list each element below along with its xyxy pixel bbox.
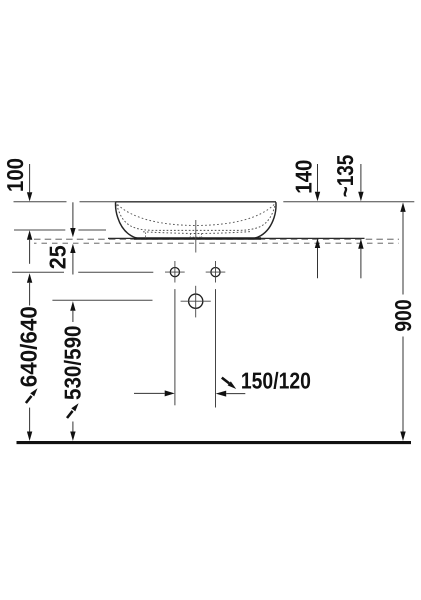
dimension 150/120 right tail xyxy=(226,393,245,395)
drain circle xyxy=(189,294,203,308)
dashed countertop top line xyxy=(34,238,399,240)
dimension 530 upper line xyxy=(72,311,74,322)
svg-text:100: 100 xyxy=(2,158,28,192)
dashed countertop bottom line xyxy=(34,242,399,244)
dimension 150/120 left arrowhead xyxy=(165,390,175,396)
svg-text:900: 900 xyxy=(390,299,416,332)
wire rim-level line mid segment xyxy=(80,201,277,203)
tap hole circle right xyxy=(211,268,220,277)
wire 100-below reference line left xyxy=(14,229,65,231)
dimension 640 upper line xyxy=(29,283,31,306)
dimension 25 lower tail xyxy=(72,253,74,275)
svg-text:640/640: 640/640 xyxy=(16,306,42,387)
svg-text:25: 25 xyxy=(45,245,71,269)
svg-text:530/590: 530/590 xyxy=(60,326,86,401)
dimension 100 upper arrowhead xyxy=(27,192,32,201)
dimension 640 upper arrowhead xyxy=(27,273,32,283)
dimension 25 lower arrowhead xyxy=(70,244,75,253)
drain crosshair vertical xyxy=(195,286,197,318)
basin bottom thick line xyxy=(134,237,261,239)
drain dotted line left xyxy=(145,233,147,239)
drain dotted line mid-right xyxy=(201,234,203,239)
tap hole right crosshair horizontal xyxy=(206,271,226,273)
dimension 530 slant arrow xyxy=(67,403,79,418)
dimension 150/120 slant arrow xyxy=(222,378,236,389)
dimension 530 upper arrowhead xyxy=(70,301,75,311)
dimension 25 upper arrowhead xyxy=(70,228,75,237)
tap hole left crosshair vertical xyxy=(174,261,176,283)
wire 100-below reference line right xyxy=(78,229,106,231)
drain crosshair horizontal xyxy=(181,300,211,302)
dimension ~135 lower tail xyxy=(360,249,362,278)
dimension 900 lower arrowhead xyxy=(400,432,405,442)
wire drain level extension line xyxy=(52,299,152,301)
dimension 140 lower tail xyxy=(317,248,319,278)
dimension 640 slant arrow xyxy=(26,388,38,403)
dimension 640 lower line xyxy=(29,408,31,432)
tap hole circle left xyxy=(170,268,179,277)
tap hole right crosshair vertical xyxy=(215,261,217,283)
wire rim-level line right segment xyxy=(283,201,414,203)
dimension 900 lower line xyxy=(402,337,404,432)
floor line xyxy=(17,441,412,444)
faucet drilling extension line left xyxy=(174,289,176,405)
dimension 900 upper arrowhead xyxy=(400,202,405,212)
basin outer profile xyxy=(116,202,276,239)
faucet drilling extension line right xyxy=(215,289,217,407)
dimension ~135 upper arrowhead xyxy=(358,192,363,202)
dimension 100 upper line xyxy=(29,164,31,192)
wire tap-hole level extension line left xyxy=(12,271,64,273)
dimension 150/120 right arrowhead xyxy=(216,391,227,397)
dimension 140 upper line xyxy=(317,164,319,192)
mounting surface solid line xyxy=(108,237,365,239)
dimension 640 lower arrowhead xyxy=(27,432,32,442)
drain recess dotted line xyxy=(190,236,203,238)
svg-text:150/120: 150/120 xyxy=(241,367,311,393)
dimension 530 lower line xyxy=(72,422,74,432)
svg-text:~135: ~135 xyxy=(332,155,358,198)
wire tap-hole level extension line right xyxy=(78,271,153,273)
dimension 530 lower arrowhead xyxy=(70,432,75,442)
dimension ~135 upper line xyxy=(360,164,362,192)
basin centerline xyxy=(195,220,197,253)
dimension 100 lower arrowhead xyxy=(27,230,32,240)
dimension 150/120 left line xyxy=(134,392,165,394)
drain dotted line mid-left xyxy=(190,234,192,239)
dimension 140 upper arrowhead xyxy=(315,192,320,202)
wire rim-level line left segment xyxy=(14,201,67,203)
basin far-side inner rim dotted arc xyxy=(118,205,275,226)
dimension 140 lower arrowhead xyxy=(315,238,320,248)
dimension 25 upper line xyxy=(72,202,74,228)
basin inner bottom dotted line xyxy=(143,232,250,234)
basin rim top edge xyxy=(116,201,277,203)
tap hole left crosshair horizontal xyxy=(165,271,185,273)
dimension ~135 lower arrowhead xyxy=(358,239,363,249)
svg-text:140: 140 xyxy=(291,160,317,194)
dimension 100 lower tail xyxy=(29,240,31,264)
basin inner rim dotted contour xyxy=(117,205,275,231)
dimension 900 upper line xyxy=(402,212,404,295)
